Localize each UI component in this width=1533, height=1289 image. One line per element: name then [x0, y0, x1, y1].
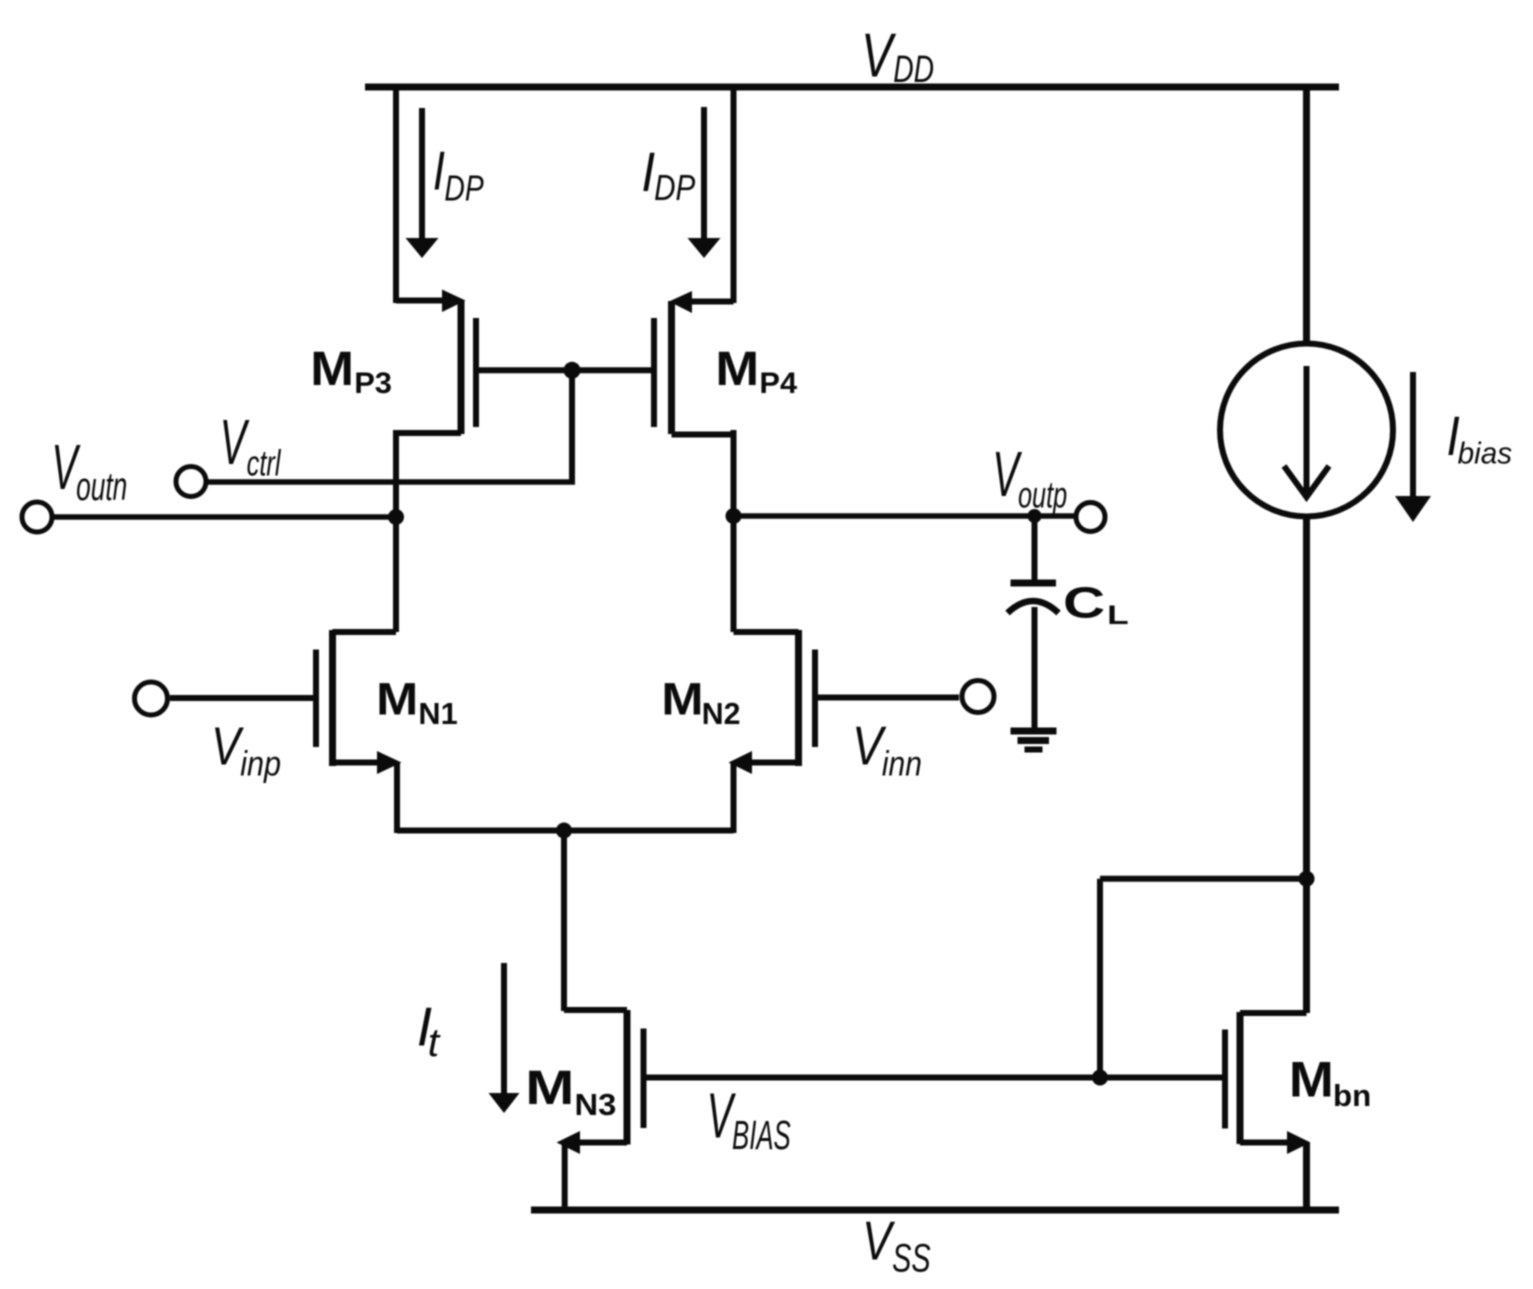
svg-text:M: M [661, 675, 703, 725]
svg-text:t: t [428, 1020, 441, 1065]
svg-text:C: C [1063, 577, 1105, 626]
svg-text:outn: outn [76, 465, 127, 510]
svg-text:M: M [310, 341, 354, 395]
svg-text:V: V [211, 716, 244, 776]
svg-text:P3: P3 [354, 366, 392, 399]
svg-text:N2: N2 [702, 697, 741, 731]
svg-text:V: V [862, 1210, 896, 1272]
svg-text:DD: DD [893, 49, 934, 91]
svg-text:bias: bias [1458, 437, 1513, 471]
svg-text:M: M [715, 341, 759, 395]
svg-text:M: M [525, 1061, 574, 1115]
svg-text:I: I [433, 140, 445, 202]
svg-text:outp: outp [1018, 474, 1067, 516]
svg-text:bn: bn [1333, 1078, 1371, 1113]
svg-text:SS: SS [892, 1236, 930, 1281]
svg-text:DP: DP [654, 167, 695, 207]
svg-text:V: V [220, 407, 250, 478]
svg-text:L: L [1107, 600, 1129, 630]
svg-text:DP: DP [444, 168, 484, 208]
svg-text:M: M [1289, 1052, 1334, 1108]
svg-text:ctrl: ctrl [247, 443, 282, 483]
svg-text:V: V [861, 20, 896, 90]
svg-text:inn: inn [882, 743, 922, 783]
svg-text:N1: N1 [418, 696, 457, 731]
svg-text:N3: N3 [575, 1087, 617, 1122]
svg-text:BIAS: BIAS [732, 1113, 791, 1158]
svg-text:P4: P4 [759, 366, 797, 400]
svg-text:inp: inp [240, 744, 281, 783]
svg-text:M: M [376, 675, 418, 725]
